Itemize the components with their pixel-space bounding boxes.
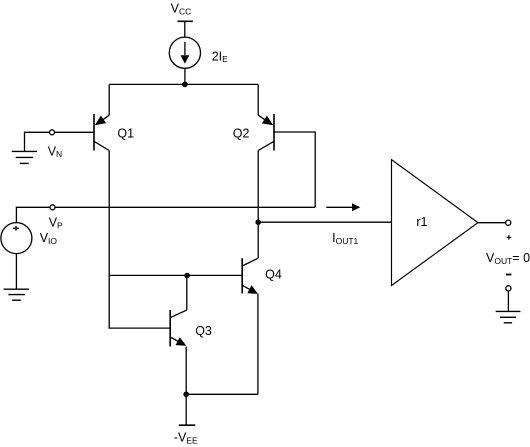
terminal VOUT: [506, 220, 511, 225]
label +: [507, 235, 512, 240]
svg-text:r1: r1: [416, 215, 427, 229]
ground (VN): [12, 151, 37, 163]
svg-text:Q2: Q2: [233, 127, 250, 141]
transistor Q1: [94, 84, 109, 150]
svg-text:-VEE: -VEE: [174, 431, 198, 446]
voltage source VIO: [1, 223, 32, 254]
junction at output node: [255, 219, 261, 225]
ground (output): [496, 311, 521, 322]
wire output node to amplifier: [258, 221, 391, 223]
wire junction to -VEE: [185, 394, 187, 425]
op-amp r1: [392, 160, 479, 286]
svg-text:VOUT= 0: VOUT= 0: [486, 251, 530, 266]
wire VIO source to ground: [15, 254, 17, 290]
current arrow IOUT1: [326, 203, 360, 211]
wire VP terminal to VIO source: [16, 207, 50, 223]
svg-text:VCC: VCC: [171, 2, 192, 17]
wire Q2 collector to junction: [257, 151, 259, 223]
wire VP to Q2 base (main horizontal): [55, 206, 315, 208]
current source 2IE: [169, 37, 200, 68]
wire junction to Q4 collector: [257, 222, 259, 258]
wire VN terminal to Q1 base: [54, 131, 94, 133]
VCC supply bar: [178, 20, 193, 22]
junction on top rail: [182, 82, 188, 88]
svg-text:VIO: VIO: [40, 231, 58, 246]
wire Q1 collector to Q3 base: [109, 151, 170, 329]
transistor Q4: [242, 258, 258, 294]
label minus: [506, 274, 512, 276]
terminal VN: [50, 130, 55, 135]
svg-text:VP: VP: [49, 216, 63, 231]
svg-text:Q3: Q3: [195, 324, 212, 338]
svg-text:VN: VN: [48, 144, 62, 159]
wire current source to top rail: [184, 68, 186, 84]
wire Q3 collector to junction: [186, 275, 188, 310]
transistor Q2: [258, 84, 274, 150]
junction at Q3 collector: [184, 273, 190, 279]
terminal lower: [506, 286, 511, 291]
terminal VP: [50, 205, 55, 210]
svg-text:2IE: 2IE: [212, 49, 228, 64]
wire VCC bar to current source: [184, 21, 186, 37]
wire terminal to ground: [507, 291, 509, 312]
wire Q4 emitter down: [257, 294, 259, 395]
transistor Q3: [170, 310, 187, 347]
svg-text:Q1: Q1: [117, 127, 134, 141]
wire Q3 emitter down: [185, 347, 187, 395]
-VEE supply bar: [179, 424, 195, 426]
wire Q3/Q4 base rail: [109, 274, 242, 276]
wire VN terminal to ground: [25, 132, 50, 151]
wire amplifier output: [478, 222, 506, 224]
wire Q2 base down leg: [274, 132, 315, 207]
svg-text:Q4: Q4: [265, 267, 282, 281]
junction at emitters: [183, 392, 189, 398]
wire bottom emitters join: [186, 393, 258, 395]
svg-text:IOUT1: IOUT1: [332, 231, 358, 246]
ground (VIO): [4, 289, 30, 300]
wire top rail: [109, 83, 258, 85]
